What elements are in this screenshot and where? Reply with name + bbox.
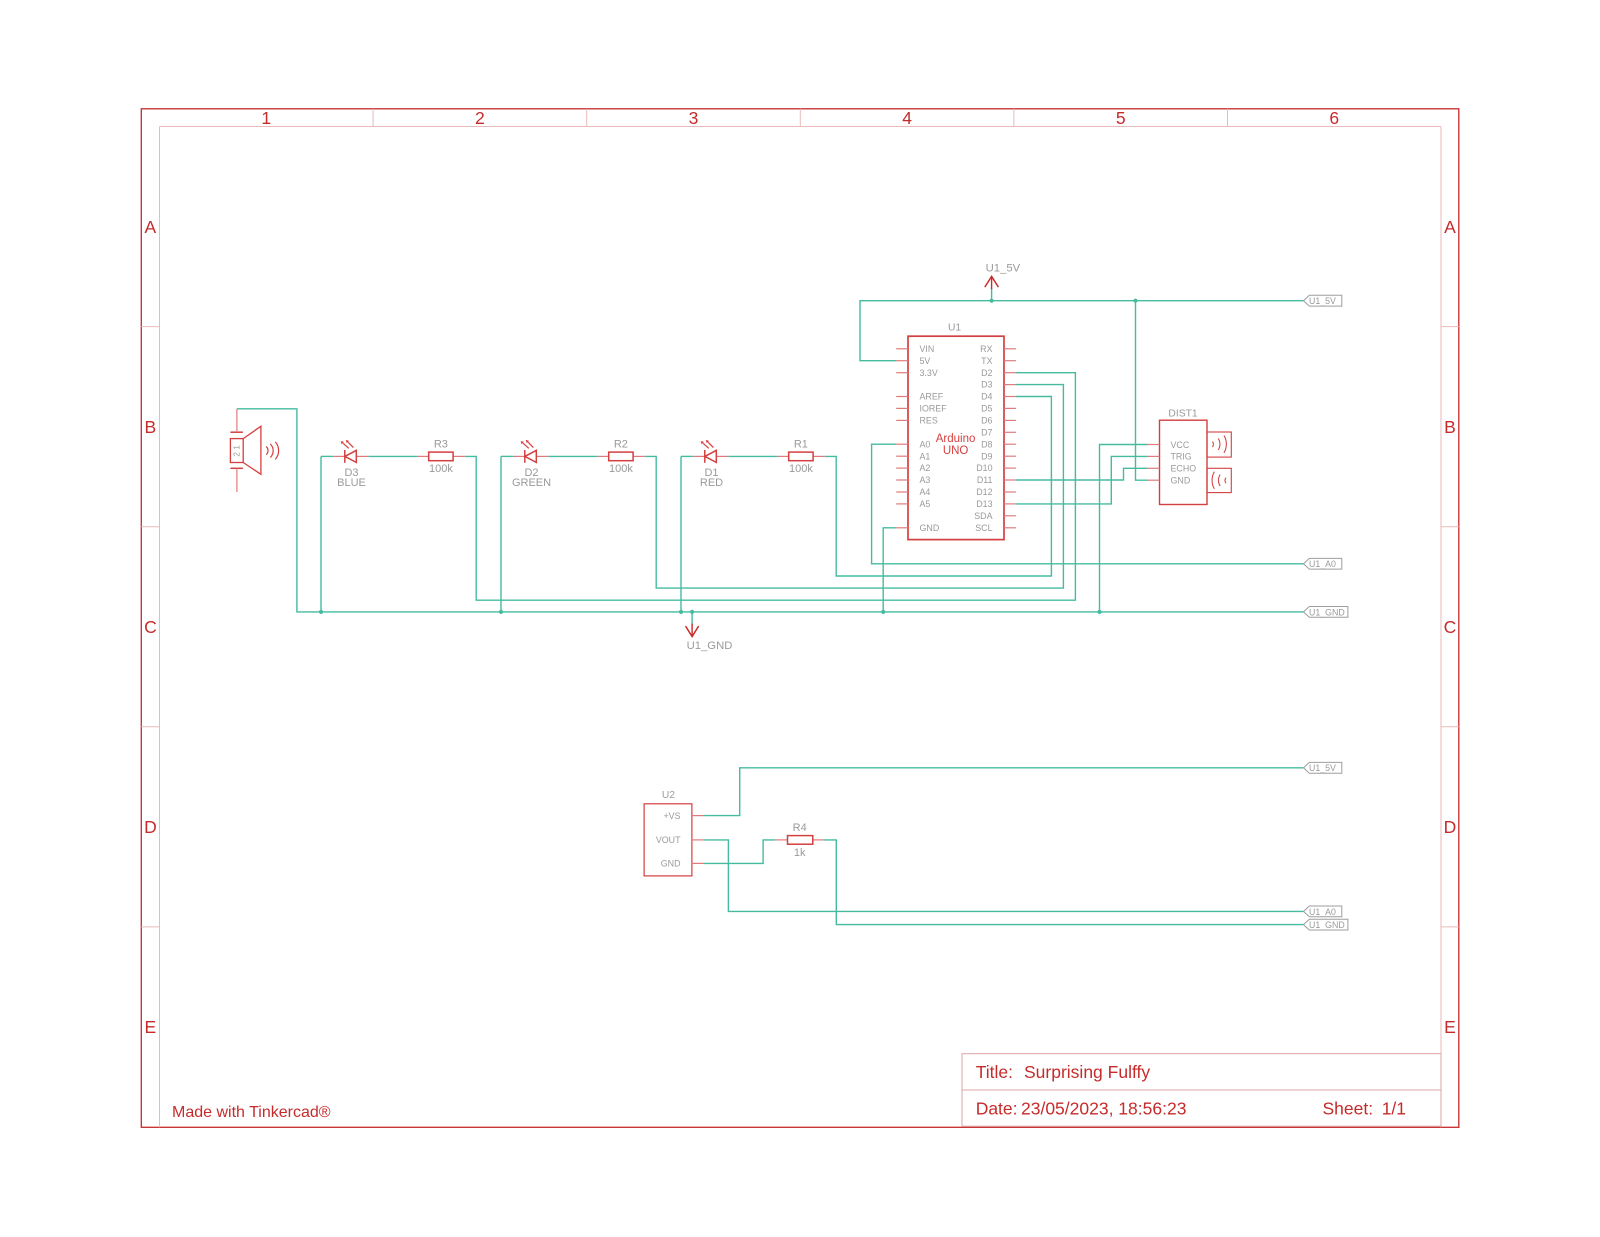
wire DIST1 VCC to GND bus [1100, 445, 1148, 612]
svg-text:A2: A2 [920, 463, 931, 473]
svg-text:UNO: UNO [943, 445, 969, 457]
svg-text:100k: 100k [789, 463, 813, 475]
svg-text:Title:: Title: [976, 1062, 1013, 1082]
wire D3 to R3 [321, 455, 333, 457]
wire DIST1 GND to 5V bus [1136, 301, 1148, 481]
svg-text:A: A [145, 217, 157, 237]
svg-text:SCL: SCL [975, 523, 992, 533]
svg-text:U1: U1 [948, 323, 961, 334]
svg-text:GND: GND [920, 523, 940, 533]
resistor R1 100k [777, 455, 789, 457]
wire U1_GND: U1 GND pin drop [883, 528, 896, 612]
svg-text:VOUT: VOUT [656, 835, 681, 845]
svg-text:D8: D8 [981, 439, 992, 449]
wire D1 anode drop to GND bus [680, 456, 682, 612]
wire D2 anode drop to GND bus [500, 456, 502, 612]
svg-text:100k: 100k [429, 463, 453, 475]
svg-text:6: 6 [1329, 108, 1339, 128]
svg-text:Date:: Date: [976, 1099, 1018, 1119]
svg-text:1: 1 [261, 108, 271, 128]
net flag U1_A0 [1304, 558, 1342, 569]
svg-text:R4: R4 [793, 822, 807, 834]
speaker PIEZO1 [230, 426, 278, 474]
svg-text:BLUE: BLUE [337, 477, 366, 489]
wire R4 to U1_GND flag [823, 840, 1303, 925]
svg-text:B: B [145, 417, 157, 437]
svg-text:GND: GND [1171, 476, 1191, 486]
svg-text:23/05/2023, 18:56:23: 23/05/2023, 18:56:23 [1021, 1099, 1186, 1119]
svg-text:1/1: 1/1 [1382, 1099, 1406, 1119]
svg-text:D11: D11 [977, 475, 993, 485]
wire U1 D13 to DIST1 TRIG [1016, 456, 1148, 504]
svg-text:4: 4 [902, 108, 912, 128]
wire R1 to U1 [825, 397, 1052, 577]
svg-text:3: 3 [689, 108, 699, 128]
svg-text:D: D [144, 817, 157, 837]
svg-text:D: D [1444, 817, 1457, 837]
svg-text:R2: R2 [614, 438, 628, 450]
power symbol U1_5V (arrow up) [985, 276, 998, 300]
junction dots [319, 299, 1138, 614]
net flag U1_GND [1304, 607, 1348, 618]
svg-text:RX: RX [980, 344, 992, 354]
svg-text:D4: D4 [981, 392, 992, 402]
svg-text:VIN: VIN [920, 344, 935, 354]
svg-text:R1: R1 [794, 438, 808, 450]
svg-text:A4: A4 [920, 487, 931, 497]
svg-text:U1_A0: U1_A0 [1309, 907, 1336, 917]
svg-text:D10: D10 [976, 463, 992, 473]
svg-text:E: E [1444, 1017, 1456, 1037]
svg-text:GREEN: GREEN [512, 477, 551, 489]
svg-text:ECHO: ECHO [1171, 464, 1197, 474]
LED D1 RED [693, 455, 705, 457]
resistor R3 100k [417, 455, 429, 457]
svg-text:B: B [1444, 417, 1456, 437]
svg-text:RED: RED [700, 477, 723, 489]
svg-text:SDA: SDA [974, 511, 992, 521]
svg-text:D2: D2 [981, 368, 992, 378]
wire D2 to R2 [501, 455, 513, 457]
svg-text:TRIG: TRIG [1171, 452, 1192, 462]
svg-text:TX: TX [981, 356, 992, 366]
wire U1_5V net: 5V pin loop and top bus [860, 301, 1304, 361]
wire R2 to U1 [645, 385, 1064, 588]
svg-text:GND: GND [661, 859, 681, 869]
svg-text:Arduino: Arduino [936, 433, 976, 445]
resistor R4 1k [775, 839, 787, 841]
svg-text:D13: D13 [976, 499, 992, 509]
wire U2 VOUT to U1_A0 flag [704, 840, 1303, 912]
svg-text:100k: 100k [609, 463, 633, 475]
net flag U1_5V [1304, 295, 1342, 306]
net flag U1_A0 [1304, 906, 1342, 917]
svg-text:U2: U2 [662, 790, 675, 801]
svg-text:A5: A5 [920, 499, 931, 509]
svg-text:U1_5V: U1_5V [1309, 763, 1336, 773]
svg-text:C: C [1444, 617, 1457, 637]
svg-text:C: C [144, 617, 157, 637]
svg-text:A1: A1 [920, 451, 931, 461]
svg-text:U1_A0: U1_A0 [1309, 559, 1336, 569]
frame column numbers [261, 108, 1339, 128]
svg-text:A3: A3 [920, 475, 931, 485]
svg-text:D9: D9 [981, 451, 992, 461]
svg-text:U1_GND: U1_GND [1309, 920, 1345, 930]
svg-text:+VS: +VS [663, 811, 680, 821]
wire D3 anode drop to GND bus [320, 456, 322, 612]
ground symbol U1_GND (arrow down) [686, 612, 698, 637]
title block [962, 1054, 1441, 1127]
wire U2 GND to R4 [704, 840, 775, 864]
wire U1_GND bus from speaker to flag [237, 409, 1304, 612]
svg-text:E: E [145, 1017, 157, 1037]
svg-text:2: 2 [475, 108, 485, 128]
svg-text:D7: D7 [981, 427, 992, 437]
wire U1_A0 net: A0 pin loop to flag [872, 444, 1304, 564]
svg-text:RES: RES [920, 416, 938, 426]
svg-text:5: 5 [1116, 108, 1126, 128]
net flag U1_5V [1304, 762, 1342, 773]
svg-text:Surprising Fulffy: Surprising Fulffy [1024, 1062, 1150, 1082]
svg-text:3.3V: 3.3V [920, 368, 938, 378]
svg-text:Made with Tinkercad®: Made with Tinkercad® [172, 1104, 331, 1121]
svg-text:D5: D5 [981, 404, 992, 414]
net flag U1_GND [1304, 919, 1348, 930]
svg-text:U1_5V: U1_5V [1309, 296, 1336, 306]
svg-text:AREF: AREF [920, 392, 944, 402]
svg-text:1: 1 [233, 445, 242, 450]
svg-text:D12: D12 [976, 487, 992, 497]
wire U2 +VS to U1_5V flag [704, 768, 1303, 816]
wire U1 D11 to DIST1 ECHO [1016, 468, 1148, 480]
LED D2 GREEN [513, 455, 525, 457]
wire R3 to U1 [465, 373, 1076, 601]
LED D3 BLUE [333, 455, 345, 457]
svg-text:U1_GND: U1_GND [1309, 607, 1345, 617]
resistor R2 100k [597, 455, 609, 457]
svg-text:R3: R3 [434, 438, 448, 450]
svg-text:A: A [1444, 217, 1456, 237]
border frame [141, 109, 1459, 1128]
wire D1 to R1 [681, 455, 693, 457]
frame row letters [144, 217, 1456, 1037]
svg-text:1k: 1k [794, 847, 806, 859]
svg-text:5V: 5V [920, 356, 931, 366]
svg-text:U1_5V: U1_5V [986, 263, 1021, 275]
svg-text:Sheet:: Sheet: [1323, 1099, 1374, 1119]
svg-text:D6: D6 [981, 416, 992, 426]
svg-text:2: 2 [233, 452, 242, 457]
svg-text:A0: A0 [920, 439, 931, 449]
svg-text:U1_GND: U1_GND [687, 640, 733, 652]
svg-text:IOREF: IOREF [920, 404, 948, 414]
svg-text:D3: D3 [981, 380, 992, 390]
svg-text:VCC: VCC [1171, 440, 1190, 450]
svg-text:DIST1: DIST1 [1168, 408, 1197, 419]
